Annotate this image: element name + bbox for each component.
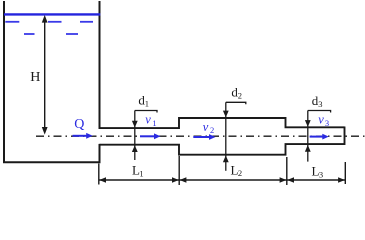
svg-text:v: v xyxy=(203,120,209,134)
svg-text:2: 2 xyxy=(238,168,242,178)
svg-text:1: 1 xyxy=(152,118,156,128)
svg-text:1: 1 xyxy=(145,99,149,109)
svg-text:3: 3 xyxy=(319,169,323,179)
svg-text:3: 3 xyxy=(318,99,322,109)
svg-text:2: 2 xyxy=(238,91,242,101)
svg-text:3: 3 xyxy=(325,118,329,128)
svg-text:H: H xyxy=(30,70,40,85)
svg-text:1: 1 xyxy=(139,169,143,179)
svg-text:2: 2 xyxy=(210,125,214,135)
svg-text:Q: Q xyxy=(74,117,84,132)
svg-text:v: v xyxy=(318,113,324,127)
svg-text:v: v xyxy=(145,113,151,127)
